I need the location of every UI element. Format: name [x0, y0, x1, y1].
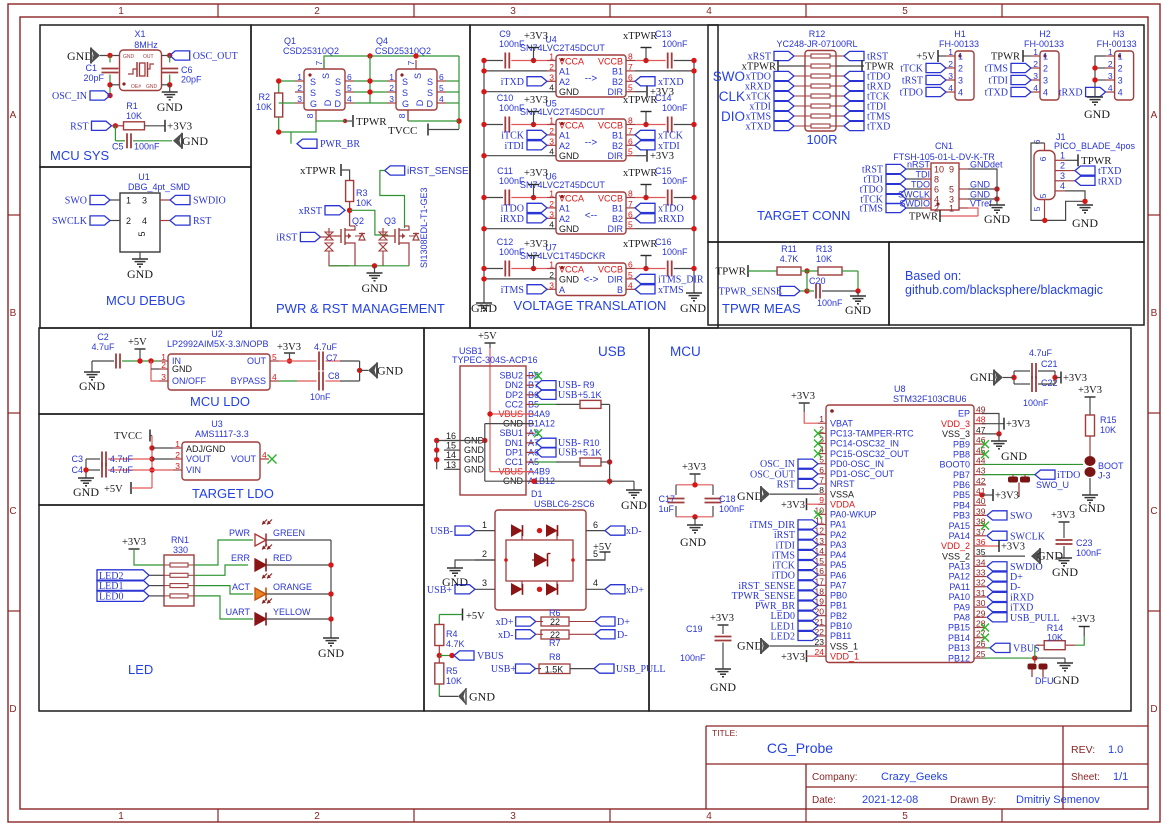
- svg-text:10K: 10K: [256, 102, 272, 112]
- svg-text:4.7uF: 4.7uF: [91, 342, 115, 352]
- svg-text:16: 16: [446, 431, 456, 441]
- svg-text:SBU2: SBU2: [499, 371, 523, 381]
- svg-text:tTMS: tTMS: [860, 204, 883, 215]
- svg-text:100nF: 100nF: [662, 176, 688, 186]
- svg-text:+5V: +5V: [128, 337, 147, 348]
- svg-text:RST: RST: [777, 479, 795, 490]
- svg-text:xTPWR: xTPWR: [623, 239, 657, 250]
- svg-text:7: 7: [628, 62, 633, 72]
- svg-text:GND: GND: [79, 379, 105, 393]
- svg-text:VCCB: VCCB: [598, 194, 623, 204]
- svg-text:RST: RST: [193, 216, 211, 227]
- svg-text:17: 17: [815, 576, 825, 586]
- svg-text:D: D: [427, 99, 434, 109]
- svg-text:Drawn By:: Drawn By:: [950, 795, 996, 806]
- svg-text:AMS1117-3.3: AMS1117-3.3: [195, 429, 249, 439]
- svg-text:YELLOW: YELLOW: [273, 607, 311, 617]
- svg-text:22: 22: [550, 617, 560, 627]
- svg-text:10nF: 10nF: [310, 392, 331, 402]
- svg-text:iTDO: iTDO: [501, 203, 524, 214]
- svg-text:B1: B1: [612, 66, 623, 76]
- svg-text:LED2: LED2: [771, 631, 795, 642]
- svg-text:SWO: SWO: [713, 69, 745, 84]
- svg-text:7: 7: [819, 475, 824, 485]
- svg-text:xTPWR: xTPWR: [300, 165, 337, 177]
- svg-text:iTMS: iTMS: [501, 285, 524, 296]
- svg-text:5: 5: [347, 83, 352, 93]
- svg-text:C20: C20: [809, 276, 826, 286]
- svg-text:TARGET LDO: TARGET LDO: [192, 486, 274, 501]
- svg-text:4: 4: [948, 83, 953, 93]
- svg-text:TVCC: TVCC: [388, 125, 417, 137]
- svg-text:iTDI: iTDI: [505, 141, 524, 152]
- svg-text:3: 3: [1060, 171, 1065, 181]
- svg-text:<--: <--: [585, 210, 598, 221]
- svg-text:PA9: PA9: [954, 602, 970, 612]
- svg-text:MCU SYS: MCU SYS: [50, 148, 110, 163]
- svg-text:VCCA: VCCA: [559, 57, 584, 67]
- svg-text:15: 15: [815, 556, 825, 566]
- svg-text:8: 8: [628, 116, 633, 126]
- svg-text:PA14: PA14: [949, 531, 970, 541]
- svg-text:2: 2: [297, 83, 302, 93]
- svg-text:4: 4: [549, 147, 554, 157]
- svg-text:PICO_BLADE_4pos: PICO_BLADE_4pos: [1054, 141, 1136, 151]
- svg-text:GND: GND: [1052, 565, 1078, 579]
- svg-text:C11: C11: [497, 166, 513, 176]
- svg-text:4: 4: [706, 6, 712, 17]
- svg-text:100nF: 100nF: [134, 142, 160, 152]
- svg-text:S: S: [402, 88, 408, 98]
- svg-text:3: 3: [142, 196, 147, 206]
- svg-text:1: 1: [118, 811, 124, 822]
- svg-text:1: 1: [1033, 47, 1038, 57]
- svg-text:R12: R12: [809, 29, 826, 39]
- svg-text:10K: 10K: [446, 676, 462, 686]
- svg-text:100nF: 100nF: [499, 247, 525, 257]
- svg-text:GND: GND: [318, 646, 344, 660]
- svg-text:VCCA: VCCA: [559, 265, 584, 275]
- svg-text:tRST: tRST: [902, 76, 923, 87]
- svg-text:DP1: DP1: [505, 447, 523, 457]
- svg-text:1: 1: [389, 72, 394, 82]
- svg-text:S: S: [427, 77, 433, 87]
- svg-text:H1: H1: [954, 29, 966, 39]
- svg-text:1: 1: [126, 196, 131, 206]
- svg-text:Crazy_Geeks: Crazy_Geeks: [881, 771, 948, 783]
- svg-text:Based on:: Based on:: [905, 269, 961, 283]
- svg-text:+5V: +5V: [466, 611, 485, 622]
- svg-text:1: 1: [175, 439, 180, 449]
- svg-text:github.com/blacksphere/blackma: github.com/blacksphere/blackmagic: [905, 283, 1103, 297]
- svg-text:-->: -->: [585, 137, 598, 148]
- svg-text:C12: C12: [497, 237, 514, 247]
- svg-text:5: 5: [949, 185, 954, 195]
- svg-text:X1: X1: [134, 29, 145, 39]
- svg-text:+3V3: +3V3: [781, 652, 805, 663]
- svg-text:8MHz: 8MHz: [134, 40, 158, 50]
- svg-text:DP2: DP2: [505, 390, 523, 400]
- svg-text:C14: C14: [655, 93, 672, 103]
- svg-text:5: 5: [628, 147, 633, 157]
- svg-text:3: 3: [510, 6, 516, 17]
- svg-text:Q3: Q3: [384, 216, 396, 226]
- svg-text:PB5: PB5: [953, 490, 970, 500]
- svg-text:GND: GND: [362, 281, 388, 295]
- svg-text:6: 6: [628, 136, 633, 146]
- svg-text:40: 40: [976, 496, 986, 506]
- svg-text:TPWR: TPWR: [356, 116, 387, 128]
- svg-text:xTCK: xTCK: [658, 130, 684, 141]
- svg-text:4: 4: [1033, 83, 1038, 93]
- svg-text:S: S: [335, 88, 341, 98]
- svg-text:26: 26: [976, 639, 986, 649]
- svg-text:C16: C16: [655, 237, 672, 247]
- svg-text:GND: GND: [464, 445, 485, 455]
- svg-text:34: 34: [976, 557, 986, 567]
- svg-text:VIN: VIN: [186, 465, 201, 475]
- svg-text:A: A: [1151, 110, 1158, 121]
- svg-text:PD1-OSC_OUT: PD1-OSC_OUT: [830, 469, 895, 479]
- svg-text:39: 39: [976, 506, 986, 516]
- svg-text:A2: A2: [559, 141, 570, 151]
- svg-text:5.1K: 5.1K: [583, 390, 602, 400]
- svg-text:R8: R8: [549, 652, 561, 662]
- svg-text:29: 29: [976, 608, 986, 618]
- svg-text:3: 3: [549, 209, 554, 219]
- svg-text:6: 6: [1032, 139, 1042, 144]
- svg-text:GREEN: GREEN: [273, 528, 305, 538]
- svg-text:PC13-TAMPER-RTC: PC13-TAMPER-RTC: [830, 429, 914, 439]
- svg-text:100nF: 100nF: [499, 176, 525, 186]
- svg-text:VCCA: VCCA: [559, 194, 584, 204]
- svg-text:2: 2: [389, 83, 394, 93]
- svg-text:SWO: SWO: [65, 196, 87, 207]
- svg-text:SWCLK: SWCLK: [52, 216, 88, 227]
- svg-text:8: 8: [819, 485, 824, 495]
- svg-text:OUT: OUT: [247, 356, 267, 366]
- svg-text:3: 3: [958, 76, 963, 86]
- svg-text:GND: GND: [737, 639, 763, 653]
- svg-text:VBUS: VBUS: [477, 651, 504, 662]
- svg-text:+3V3: +3V3: [1051, 510, 1075, 521]
- svg-text:B1: B1: [612, 203, 623, 213]
- svg-text:GND: GND: [559, 224, 580, 234]
- svg-text:PB0: PB0: [830, 591, 847, 601]
- svg-text:PWR: PWR: [229, 528, 250, 538]
- svg-text:2: 2: [948, 59, 953, 69]
- svg-text:VSSA: VSSA: [830, 489, 854, 499]
- svg-text:GND: GND: [1001, 449, 1027, 463]
- svg-text:D+: D+: [617, 617, 630, 628]
- svg-text:+3V3: +3V3: [524, 95, 548, 106]
- svg-text:4.7uF: 4.7uF: [110, 454, 134, 464]
- svg-text:PB15: PB15: [948, 623, 970, 633]
- svg-text:FH-00133: FH-00133: [939, 39, 979, 49]
- svg-text:1: 1: [549, 260, 554, 270]
- svg-text:DN1: DN1: [505, 438, 523, 448]
- svg-text:3: 3: [549, 136, 554, 146]
- svg-text:GND: GND: [559, 87, 580, 97]
- svg-text:DIR: DIR: [608, 274, 624, 284]
- svg-text:tTDI: tTDI: [989, 76, 1008, 87]
- svg-text:C13: C13: [655, 29, 672, 39]
- svg-text:GND: GND: [157, 100, 183, 114]
- svg-text:<->: <->: [583, 274, 598, 285]
- svg-text:1: 1: [549, 189, 554, 199]
- svg-text:3: 3: [482, 578, 487, 588]
- svg-text:1.0: 1.0: [1108, 744, 1123, 756]
- svg-text:B2: B2: [612, 77, 623, 87]
- svg-text:100nF: 100nF: [1023, 398, 1049, 408]
- svg-text:GND: GND: [1084, 107, 1110, 121]
- svg-text:R5: R5: [446, 666, 458, 676]
- svg-text:R3: R3: [356, 188, 368, 198]
- svg-text:SWO: SWO: [1010, 511, 1032, 522]
- svg-text:Q2: Q2: [352, 216, 364, 226]
- svg-text:PB9: PB9: [953, 439, 970, 449]
- svg-text:20: 20: [815, 607, 825, 617]
- svg-text:PA10: PA10: [949, 592, 970, 602]
- svg-text:REV:: REV:: [1071, 744, 1095, 756]
- svg-text:B2: B2: [612, 214, 623, 224]
- svg-text:PA5: PA5: [830, 560, 846, 570]
- svg-text:5: 5: [272, 352, 277, 362]
- svg-text:C4: C4: [71, 465, 83, 475]
- svg-text:16: 16: [815, 566, 825, 576]
- svg-text:6: 6: [934, 185, 939, 195]
- svg-text:DIR: DIR: [608, 87, 624, 97]
- svg-text:3: 3: [1108, 71, 1113, 81]
- svg-text:C: C: [1150, 506, 1157, 517]
- svg-text:30: 30: [976, 598, 986, 608]
- svg-text:Sheet:: Sheet:: [1071, 772, 1100, 783]
- svg-text:Dmitriy Semenov: Dmitriy Semenov: [1016, 794, 1100, 806]
- svg-text:PWR & RST MANAGEMENT: PWR & RST MANAGEMENT: [276, 301, 445, 316]
- svg-text:C17: C17: [658, 494, 675, 504]
- svg-text:3: 3: [1033, 71, 1038, 81]
- svg-text:A2: A2: [559, 77, 570, 87]
- svg-text:xTXD: xTXD: [658, 77, 684, 88]
- svg-text:+3V3: +3V3: [710, 613, 734, 624]
- svg-text:4: 4: [347, 94, 352, 104]
- svg-text:C1: C1: [85, 63, 97, 73]
- svg-text:4: 4: [549, 220, 554, 230]
- svg-text:D1: D1: [531, 489, 543, 499]
- svg-text:RN1: RN1: [171, 535, 189, 545]
- svg-text:GND: GND: [73, 485, 99, 499]
- svg-text:SWDIO: SWDIO: [193, 196, 226, 207]
- svg-text:tRXD: tRXD: [1098, 176, 1122, 187]
- svg-text:B: B: [1151, 308, 1158, 319]
- svg-text:USB+: USB+: [558, 447, 583, 458]
- svg-text:100nF: 100nF: [817, 298, 843, 308]
- svg-text:C: C: [9, 506, 16, 517]
- svg-text:5.1K: 5.1K: [583, 447, 602, 457]
- svg-text:GNDdet: GNDdet: [970, 160, 1003, 170]
- svg-text:C10: C10: [497, 93, 514, 103]
- svg-text:iTMS_DIR: iTMS_DIR: [658, 274, 704, 285]
- svg-text:C23: C23: [1076, 538, 1093, 548]
- svg-text:USB-: USB-: [430, 526, 453, 537]
- svg-text:22: 22: [815, 627, 825, 637]
- svg-text:A1: A1: [559, 203, 570, 213]
- svg-text:2: 2: [1033, 59, 1038, 69]
- svg-text:J-3: J-3: [1098, 471, 1111, 481]
- svg-text:D: D: [323, 99, 333, 106]
- svg-text:4.7uF: 4.7uF: [1029, 348, 1053, 358]
- svg-text:7: 7: [406, 60, 416, 65]
- svg-text:CG_Probe: CG_Probe: [767, 740, 833, 756]
- svg-text:B: B: [10, 308, 17, 319]
- svg-text:5: 5: [902, 811, 908, 822]
- svg-text:iTXD: iTXD: [501, 77, 524, 88]
- svg-text:8: 8: [397, 113, 407, 118]
- svg-text:5: 5: [628, 270, 633, 280]
- svg-text:iRST_SENSE: iRST_SENSE: [407, 166, 469, 177]
- svg-text:GND: GND: [1053, 673, 1079, 687]
- svg-text:4: 4: [628, 280, 633, 290]
- svg-text:2: 2: [549, 199, 554, 209]
- svg-text:C15: C15: [655, 166, 672, 176]
- svg-text:CSD25310Q2: CSD25310Q2: [375, 46, 431, 56]
- svg-text:10K: 10K: [356, 198, 372, 208]
- svg-text:1: 1: [549, 52, 554, 62]
- svg-text:32: 32: [976, 578, 986, 588]
- svg-text:20pF: 20pF: [83, 73, 104, 83]
- svg-text:PC15-OSC32_OUT: PC15-OSC32_OUT: [830, 449, 910, 459]
- svg-text:SWO_U: SWO_U: [1036, 480, 1069, 490]
- svg-text:+3V3: +3V3: [791, 391, 815, 402]
- svg-text:3: 3: [1043, 76, 1048, 86]
- svg-text:VOLTAGE TRANSLATION: VOLTAGE TRANSLATION: [514, 298, 667, 313]
- svg-text:2: 2: [1118, 64, 1123, 74]
- svg-text:OUT: OUT: [143, 54, 154, 60]
- svg-text:VDD_3: VDD_3: [941, 419, 970, 429]
- svg-text:18: 18: [815, 586, 825, 596]
- svg-text:2: 2: [958, 64, 963, 74]
- svg-text:4: 4: [1118, 88, 1123, 98]
- svg-text:FH-00133: FH-00133: [1097, 39, 1137, 49]
- svg-text:4: 4: [262, 450, 267, 460]
- svg-text:VSS_3: VSS_3: [942, 429, 970, 439]
- svg-text:+3V3: +3V3: [1071, 614, 1095, 625]
- svg-text:19: 19: [815, 597, 825, 607]
- svg-text:VBUS: VBUS: [1013, 643, 1040, 654]
- svg-text:13: 13: [446, 460, 456, 470]
- svg-text:TPWR: TPWR: [715, 266, 746, 278]
- svg-text:6: 6: [628, 260, 633, 270]
- svg-text:100R: 100R: [806, 132, 837, 147]
- svg-text:2: 2: [549, 62, 554, 72]
- svg-text:1: 1: [958, 52, 963, 62]
- svg-text:ADJ/GND: ADJ/GND: [186, 444, 226, 454]
- svg-text:nRST: nRST: [907, 160, 931, 170]
- svg-text:1: 1: [1060, 150, 1065, 160]
- svg-text:PB8: PB8: [953, 449, 970, 459]
- svg-text:100nF: 100nF: [499, 103, 525, 113]
- svg-text:10: 10: [934, 165, 944, 175]
- svg-text:MCU LDO: MCU LDO: [190, 394, 250, 409]
- svg-text:BOOT: BOOT: [1098, 461, 1124, 471]
- svg-text:xTDO: xTDO: [658, 203, 684, 214]
- svg-text:VDD_2: VDD_2: [941, 541, 970, 551]
- svg-text:1uF: 1uF: [658, 504, 674, 514]
- svg-text:100nF: 100nF: [719, 504, 745, 514]
- svg-text:USB+: USB+: [491, 664, 516, 675]
- svg-text:+3V3: +3V3: [650, 151, 674, 162]
- svg-text:4: 4: [958, 88, 963, 98]
- svg-text:GND: GND: [845, 303, 871, 317]
- svg-text:PB12: PB12: [948, 653, 970, 663]
- svg-text:H3: H3: [1113, 29, 1125, 39]
- svg-text:C3: C3: [71, 454, 83, 464]
- svg-text:3: 3: [1118, 76, 1123, 86]
- svg-text:GND: GND: [123, 54, 135, 60]
- svg-text:R9: R9: [583, 380, 595, 390]
- svg-text:ERR: ERR: [231, 553, 251, 563]
- svg-text:+3V3: +3V3: [995, 491, 1019, 502]
- svg-text:8: 8: [628, 52, 633, 62]
- svg-text:R7: R7: [549, 638, 561, 648]
- svg-text:100nF: 100nF: [499, 39, 525, 49]
- svg-text:S: S: [310, 77, 316, 87]
- svg-text:+3V3: +3V3: [1006, 419, 1030, 430]
- svg-text:1: 1: [549, 116, 554, 126]
- svg-text:+5V: +5V: [104, 484, 123, 495]
- svg-text:Q1: Q1: [284, 36, 296, 46]
- svg-text:4.7K: 4.7K: [446, 639, 465, 649]
- svg-text:C18: C18: [719, 494, 736, 504]
- svg-text:D-: D-: [617, 630, 628, 641]
- svg-text:4.7K: 4.7K: [780, 254, 799, 264]
- svg-text:tTXD: tTXD: [985, 88, 1008, 99]
- svg-text:8: 8: [628, 189, 633, 199]
- svg-text:1: 1: [949, 204, 954, 214]
- svg-text:DN2: DN2: [505, 380, 523, 390]
- svg-text:1: 1: [819, 414, 824, 424]
- svg-text:NRST: NRST: [830, 479, 855, 489]
- svg-text:TPWR_SENSE: TPWR_SENSE: [719, 287, 782, 298]
- svg-text:U3: U3: [211, 419, 223, 429]
- svg-text:xTDI: xTDI: [658, 141, 680, 152]
- svg-text:VSS_2: VSS_2: [942, 551, 970, 561]
- svg-text:C5: C5: [112, 142, 124, 152]
- svg-text:3: 3: [510, 811, 516, 822]
- svg-text:ON/OFF: ON/OFF: [172, 376, 206, 386]
- svg-text:3: 3: [549, 72, 554, 82]
- svg-text:A: A: [10, 110, 17, 121]
- svg-text:VOUT: VOUT: [231, 454, 257, 464]
- svg-text:1: 1: [482, 520, 487, 530]
- svg-text:GND: GND: [146, 84, 158, 90]
- svg-text:6: 6: [819, 465, 824, 475]
- svg-text:TARGET CONN: TARGET CONN: [757, 208, 850, 223]
- svg-text:B1: B1: [612, 130, 623, 140]
- svg-text:FH-00133: FH-00133: [1024, 39, 1064, 49]
- svg-text:Date:: Date:: [812, 795, 836, 806]
- svg-text:1: 1: [1043, 52, 1048, 62]
- svg-text:C8: C8: [328, 371, 340, 381]
- svg-text:VCCA: VCCA: [559, 121, 584, 131]
- svg-text:DFU: DFU: [1035, 676, 1054, 686]
- svg-text:3: 3: [175, 461, 180, 471]
- svg-text:C7: C7: [326, 353, 338, 363]
- svg-text:VDD_1: VDD_1: [830, 651, 859, 661]
- svg-text:TPWR MEAS: TPWR MEAS: [722, 301, 801, 316]
- svg-text:1: 1: [948, 47, 953, 57]
- svg-text:PB13: PB13: [948, 643, 970, 653]
